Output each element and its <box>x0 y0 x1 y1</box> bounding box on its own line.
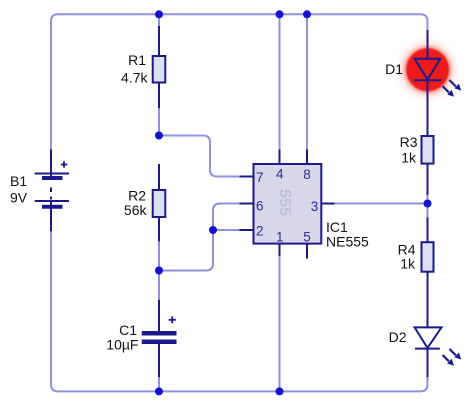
svg-text:R3: R3 <box>400 134 418 150</box>
wire pin 6 to node C vertical to node B <box>159 204 240 271</box>
svg-text:1k: 1k <box>401 150 417 166</box>
svg-text:1: 1 <box>276 230 284 245</box>
svg-text:3: 3 <box>311 199 319 214</box>
svg-text:B1: B1 <box>10 173 27 189</box>
node dot bottom rail pin1 <box>276 387 284 395</box>
op IC1 555 chip body <box>240 150 335 259</box>
resistor R3 <box>427 164 429 195</box>
LED D1 <box>414 30 442 136</box>
wire pin 3 to node D <box>335 203 428 205</box>
LED D1 arrows <box>443 80 462 97</box>
svg-text:4: 4 <box>276 167 284 182</box>
svg-text:9V: 9V <box>10 190 28 206</box>
svg-text:D1: D1 <box>385 61 403 77</box>
node B dot <box>155 267 163 275</box>
capacitor C1 <box>158 300 160 378</box>
node A dot <box>155 132 163 140</box>
node D dot <box>424 200 432 208</box>
node dot top rail R1 <box>155 10 163 18</box>
svg-text:D2: D2 <box>389 329 407 345</box>
svg-text:4.7k: 4.7k <box>121 70 148 86</box>
wire top rail and left rail upper <box>51 14 428 149</box>
svg-text:7: 7 <box>256 170 264 185</box>
svg-text:6: 6 <box>256 199 264 214</box>
node C dot <box>209 226 217 234</box>
wire R2 bottom through node B to C1 top <box>158 241 160 299</box>
wire node C to pin 2 <box>213 229 240 231</box>
wire R1 top lead to top rail <box>158 14 160 26</box>
LED D2 arrows <box>443 349 462 366</box>
wire pin 4 to top rail <box>279 14 281 149</box>
resistor R4 <box>427 217 429 327</box>
wire R1 bottom to node A <box>158 108 160 136</box>
wire pin 1 to bottom rail <box>279 256 281 391</box>
wire node A to pin 7 <box>159 136 240 177</box>
svg-text:NE555: NE555 <box>326 234 369 250</box>
node dot top rail pin8 <box>303 10 311 18</box>
wire bottom rail and left rail lower <box>51 231 428 391</box>
wire pin 8 to top rail <box>306 14 308 149</box>
LED D1 red body <box>407 49 448 90</box>
svg-text:5: 5 <box>303 230 311 245</box>
node dot bottom rail C1 <box>155 387 163 395</box>
svg-text:8: 8 <box>303 167 311 182</box>
svg-text:R1: R1 <box>128 52 146 68</box>
wire C1 bottom to bottom rail <box>158 377 160 391</box>
svg-text:56k: 56k <box>124 202 148 218</box>
svg-text:10µF: 10µF <box>106 337 138 353</box>
svg-text:1k: 1k <box>400 256 416 272</box>
LED D1 glow <box>393 35 463 105</box>
battery B1 <box>35 150 69 232</box>
node dot top rail pin4 <box>276 10 284 18</box>
resistor R1 <box>158 26 160 108</box>
resistor R2 <box>158 164 160 241</box>
svg-text:2: 2 <box>256 224 264 239</box>
wire R3 bottom to node D to R4 top <box>427 195 429 217</box>
svg-text:555: 555 <box>276 189 293 216</box>
LED D2 <box>415 327 442 377</box>
